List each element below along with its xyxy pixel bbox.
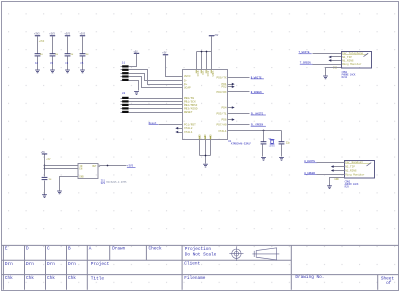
svg-text:Client: Client bbox=[184, 262, 200, 267]
svg-text:UVCC: UVCC bbox=[184, 75, 191, 78]
svg-text:+3V3: +3V3 bbox=[64, 33, 70, 36]
wire U1 bottom GND pins bbox=[200, 140, 211, 164]
svg-text:+3V: +3V bbox=[162, 51, 167, 54]
capacitor C4 with +3V3 and ground bbox=[64, 33, 73, 74]
junction dot bottom bbox=[205, 155, 207, 157]
U1 left pin labels bbox=[184, 75, 198, 134]
svg-text:J1: J1 bbox=[122, 61, 126, 64]
U1 pin leads inside bbox=[196, 70, 211, 140]
no-connect stub PD6 bbox=[228, 119, 234, 121]
wire J2-3 to U1 bbox=[129, 104, 183, 106]
svg-text:Title: Title bbox=[91, 277, 105, 282]
CON2 refdes and value bbox=[345, 180, 359, 188]
wire CON1 GND to ground bbox=[326, 68, 342, 76]
svg-text:3V3: 3V3 bbox=[101, 182, 106, 185]
svg-text:GND: GND bbox=[209, 134, 212, 139]
svg-text:PD6: PD6 bbox=[222, 119, 227, 122]
svg-text:Do Not Scale: Do Not Scale bbox=[185, 252, 217, 257]
net label B_WHITE bbox=[251, 76, 264, 79]
wire IC1 GND to ground bbox=[60, 177, 79, 191]
connector J1 bbox=[121, 61, 129, 81]
svg-text:J2: J2 bbox=[122, 92, 126, 95]
net label H_GREEN bbox=[304, 172, 317, 175]
wire Reset to U1 bbox=[159, 124, 183, 126]
svg-text:22p: 22p bbox=[286, 141, 291, 144]
wire J1-3 to U1 bbox=[129, 74, 183, 81]
junction dot on output bbox=[107, 165, 109, 167]
svg-text:PC1/RST: PC1/RST bbox=[184, 122, 196, 126]
svg-text:N2_RING: N2_RING bbox=[345, 169, 357, 172]
svg-text:Drn: Drn bbox=[5, 262, 13, 267]
svg-text:UCAP: UCAP bbox=[184, 87, 191, 90]
capacitor C5 with +3V3 and ground bbox=[80, 33, 89, 74]
svg-text:UVCC: UVCC bbox=[196, 71, 199, 77]
crystal Q1 bbox=[269, 137, 276, 148]
svg-text:+3V3: +3V3 bbox=[34, 33, 40, 36]
wire J1-1 to +5V bbox=[129, 54, 137, 67]
wire +5V stem bbox=[211, 37, 213, 52]
wire J1-4 to U1 bbox=[129, 77, 183, 88]
projection symbol circle bbox=[229, 247, 243, 261]
svg-text:RESET: RESET bbox=[184, 111, 193, 114]
no-connect stub PD1 bbox=[228, 84, 234, 86]
ground under U1 bbox=[203, 164, 208, 168]
svg-text:For Handset: For Handset bbox=[345, 160, 363, 164]
svg-text:+3V3: +3V3 bbox=[39, 40, 45, 43]
svg-text:VBUS: VBUS bbox=[211, 71, 214, 77]
svg-text:Chk: Chk bbox=[5, 276, 13, 281]
svg-text:1u: 1u bbox=[70, 53, 74, 56]
svg-text:Drawing No.: Drawing No. bbox=[295, 275, 324, 280]
svg-text:N2_TIP: N2_TIP bbox=[345, 166, 355, 169]
svg-text:1u: 1u bbox=[55, 53, 59, 56]
wire H_GREEN to CON2 bbox=[317, 174, 345, 176]
ground at IC1 bbox=[57, 191, 62, 195]
svg-text:PB3/MISO: PB3/MISO bbox=[184, 107, 198, 111]
svg-text:OUT: OUT bbox=[92, 165, 97, 168]
svg-text:Drn: Drn bbox=[68, 262, 76, 267]
CON2 lever mark bbox=[367, 163, 372, 166]
svg-text:E: E bbox=[5, 247, 8, 252]
svg-text:PD2: PD2 bbox=[222, 86, 227, 89]
wire +3V3 to U1 bbox=[166, 56, 183, 77]
svg-text:Drn: Drn bbox=[26, 262, 34, 267]
svg-text:PB2/MOSI: PB2/MOSI bbox=[184, 103, 198, 107]
wire to IC1 IN bbox=[45, 165, 79, 167]
capacitor C3 with +3V3 and ground bbox=[49, 33, 58, 74]
svg-text:+5V: +5V bbox=[41, 151, 46, 154]
no-connect stub CON2-2 bbox=[334, 166, 345, 168]
+5V symbol above U1 bbox=[209, 34, 219, 37]
svg-text:XTAL2: XTAL2 bbox=[184, 127, 193, 130]
wire J2-2 to U1 bbox=[129, 101, 183, 103]
svg-text:N1_RING: N1_RING bbox=[342, 59, 354, 62]
capacitor C7 bbox=[279, 131, 291, 161]
wire J2-4 to U1 bbox=[129, 108, 183, 110]
U1 top pin names bbox=[196, 71, 214, 77]
regulator IC1 body bbox=[78, 164, 98, 179]
svg-text:AVCC: AVCC bbox=[206, 71, 209, 77]
svg-text:RJ11: RJ11 bbox=[342, 76, 348, 79]
wire CON2 GND to ground bbox=[330, 178, 345, 186]
wire T_WHITE to CON1 bbox=[313, 53, 342, 55]
CON1 lever mark bbox=[364, 53, 369, 56]
svg-text:XTAL1: XTAL1 bbox=[184, 131, 193, 134]
svg-text:GND: GND bbox=[204, 134, 207, 139]
svg-text:Chk: Chk bbox=[26, 276, 34, 281]
wire J1-2 to U1 bbox=[129, 70, 183, 85]
svg-text:C: C bbox=[47, 247, 50, 252]
wire +5V rail down bbox=[44, 155, 46, 177]
ground at J1 bbox=[134, 91, 139, 95]
ground under C8 bbox=[42, 194, 47, 198]
svg-text:D: D bbox=[26, 247, 29, 252]
wire J1-5 to ground bbox=[129, 81, 139, 91]
net label H_WHITE bbox=[304, 160, 317, 163]
title block labels bbox=[5, 247, 395, 287]
ground at CON2 bbox=[327, 185, 332, 189]
no-connect stub XTAL1 bbox=[178, 132, 183, 134]
wire C8 to ground bbox=[44, 181, 46, 195]
junction dots regulator input bbox=[44, 165, 46, 167]
svg-text:PD0/TX: PD0/TX bbox=[217, 75, 227, 79]
jack CON1 body bbox=[342, 52, 372, 69]
capacitor C6 bbox=[261, 131, 267, 161]
svg-text:+3V3: +3V3 bbox=[49, 33, 55, 36]
svg-text:GND: GND bbox=[334, 178, 339, 181]
wire U1 top pins bbox=[197, 52, 212, 70]
svg-text:of: of bbox=[386, 281, 392, 286]
net label Reset bbox=[149, 122, 159, 125]
no-connect stub XTAL2 bbox=[178, 128, 183, 130]
wire U1 XTAL to crystal bbox=[228, 130, 282, 132]
IC1 pin labels bbox=[79, 165, 97, 179]
projection symbol cone bbox=[252, 248, 279, 260]
svg-text:Check: Check bbox=[149, 247, 163, 252]
svg-text:PB0/SS: PB0/SS bbox=[184, 96, 194, 100]
wire to IC1 EN bbox=[45, 168, 79, 170]
svg-text:GND: GND bbox=[199, 134, 202, 139]
junction dot crystal bbox=[263, 130, 265, 132]
svg-text:1u: 1u bbox=[40, 53, 44, 56]
svg-text:D-: D- bbox=[184, 79, 188, 82]
svg-text:ATMEGA48-32MLF: ATMEGA48-32MLF bbox=[231, 142, 252, 145]
CON1 internal labels bbox=[342, 51, 367, 66]
net label T_WHITE bbox=[299, 51, 312, 54]
no-connect stub CON2-3 bbox=[334, 170, 345, 172]
svg-text:Chk: Chk bbox=[47, 276, 55, 281]
+3V3 symbol feeding U1 pin bbox=[162, 51, 168, 55]
svg-text:+5V: +5V bbox=[46, 158, 51, 161]
wire U1 PD3 out bbox=[228, 91, 250, 93]
CON1 refdes and value bbox=[342, 71, 356, 79]
svg-text:PD3/RX: PD3/RX bbox=[217, 90, 227, 94]
no-connect stub PD2 bbox=[228, 86, 234, 88]
net label T_GREEN bbox=[300, 62, 313, 65]
op-amp U1 body bbox=[183, 70, 228, 140]
net label SL_GREEN bbox=[251, 124, 266, 127]
svg-text:+3V3: +3V3 bbox=[80, 33, 86, 36]
svg-text:Project: Project bbox=[91, 262, 110, 267]
no-connect stub CON1-3 bbox=[331, 60, 342, 62]
svg-text:1u: 1u bbox=[85, 53, 89, 56]
svg-text:MIC5205-3.3YM5: MIC5205-3.3YM5 bbox=[106, 181, 127, 184]
svg-text:PD4: PD4 bbox=[222, 107, 227, 110]
svg-text:XTAL1: XTAL1 bbox=[218, 130, 227, 133]
wire U1 PD0 out bbox=[228, 77, 250, 79]
+5V symbol at regulator bbox=[41, 151, 47, 155]
U1 bottom pin names bbox=[199, 134, 213, 139]
svg-text:Filename: Filename bbox=[184, 276, 205, 281]
svg-text:PD7/A0: PD7/A0 bbox=[217, 123, 227, 127]
svg-text:GND: GND bbox=[79, 176, 84, 179]
ground at CON1 bbox=[323, 76, 328, 80]
connector J2 bbox=[121, 92, 129, 113]
svg-text:Ring Monitor: Ring Monitor bbox=[345, 172, 365, 176]
svg-text:Ring Monitor: Ring Monitor bbox=[342, 62, 362, 66]
U1 right pin labels bbox=[217, 75, 227, 132]
title block grid bbox=[2, 245, 399, 289]
wire U1 PD5 out bbox=[228, 113, 250, 115]
wire U1 PD7 out bbox=[228, 124, 250, 126]
svg-text:16MHz: 16MHz bbox=[269, 145, 276, 148]
CON2 internal labels bbox=[345, 160, 370, 176]
+5V symbol at J1 pin1 bbox=[133, 50, 139, 53]
svg-text:+5V: +5V bbox=[214, 34, 219, 37]
svg-text:PD5/T1: PD5/T1 bbox=[217, 112, 227, 116]
svg-text:B: B bbox=[68, 247, 71, 252]
svg-text:RJ9: RJ9 bbox=[345, 186, 350, 189]
net label B_GREEN bbox=[251, 91, 264, 94]
capacitor C8 bbox=[42, 177, 48, 180]
svg-text:VCC: VCC bbox=[201, 71, 204, 76]
wire J2-5 to U1 bbox=[129, 112, 183, 114]
svg-text:Chk: Chk bbox=[68, 276, 76, 281]
wire top power bus bbox=[197, 51, 212, 53]
wire J2-1 to U1 bbox=[129, 98, 183, 100]
wire T_GREEN to CON1 bbox=[313, 64, 342, 66]
junction dots on power bus bbox=[201, 51, 203, 53]
IC1 output pin circle bbox=[98, 165, 100, 167]
capacitor C2 with +3V3 and ground bbox=[34, 33, 45, 74]
svg-text:PB1/SCK: PB1/SCK bbox=[184, 100, 196, 104]
net label SL_WHITE bbox=[251, 112, 266, 115]
no-connect stub PD4 bbox=[228, 107, 234, 109]
wire IC1 OUT to +3V3 bbox=[100, 165, 127, 167]
svg-text:Drn: Drn bbox=[47, 262, 55, 267]
wire H_WHITE to CON2 bbox=[317, 162, 345, 164]
no-connect stub CON1-2 bbox=[331, 56, 342, 58]
net label +3V3 bbox=[127, 165, 136, 168]
svg-text:A: A bbox=[89, 247, 92, 252]
jack CON2 body bbox=[345, 161, 375, 179]
svg-text:Drawn: Drawn bbox=[112, 247, 126, 252]
